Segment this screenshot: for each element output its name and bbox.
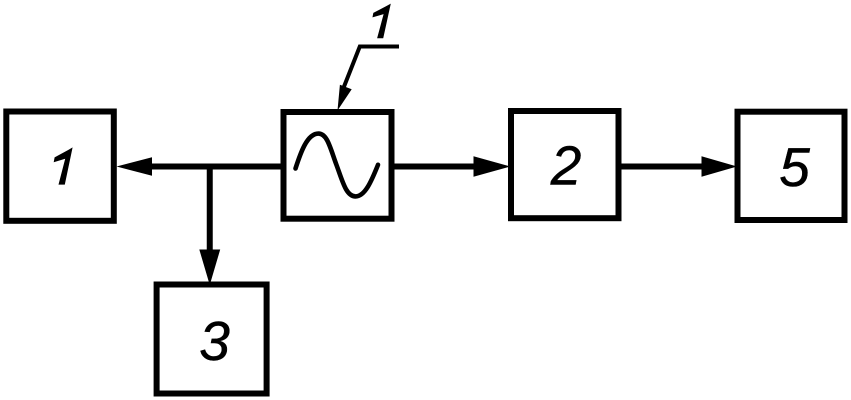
svg-text:3: 3 xyxy=(199,310,230,372)
block 3 xyxy=(157,285,267,394)
sine wave symbol xyxy=(296,134,379,197)
svg-text:2: 2 xyxy=(550,135,582,197)
arrowhead into block 2 xyxy=(474,156,511,177)
wire: generator to block 2 xyxy=(393,164,476,170)
leader arrowhead xyxy=(338,85,352,111)
arrowhead into block 3 xyxy=(199,250,220,286)
wire: block 2 to block 5 xyxy=(620,164,703,170)
block 2 xyxy=(511,111,619,218)
svg-text:5: 5 xyxy=(779,136,810,198)
block 1 xyxy=(6,112,114,221)
wire: junction down to block 3 xyxy=(207,164,213,255)
wire: generator to block 1 xyxy=(148,164,282,170)
generator block (sine source) xyxy=(284,112,392,219)
arrowhead into block 1 xyxy=(117,157,153,176)
arrowhead into block 5 xyxy=(702,156,738,177)
block 5 xyxy=(738,112,845,220)
label 1 (callout number) xyxy=(372,4,390,39)
leader line from label 1 to generator xyxy=(342,47,400,94)
